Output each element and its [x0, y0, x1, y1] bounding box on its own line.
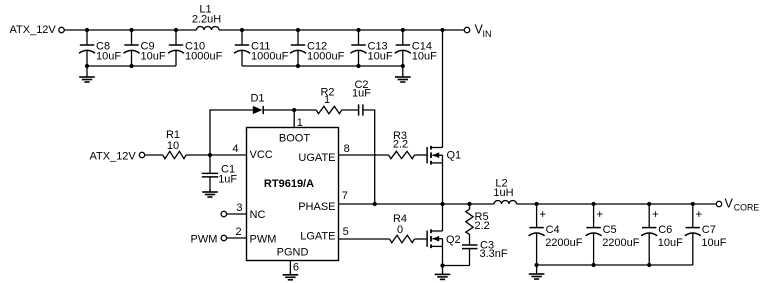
node PWM label [191, 233, 218, 245]
svg-text:PHASE: PHASE [298, 201, 335, 213]
pin 2 number [235, 226, 241, 238]
junction top rail at C8 [85, 28, 89, 32]
svg-text:1000uF: 1000uF [307, 51, 345, 63]
junction C9 bottom [129, 64, 133, 68]
capacitor C10 [168, 30, 223, 66]
svg-text:1uH: 1uH [493, 187, 513, 199]
svg-text:10uF: 10uF [96, 51, 121, 63]
capacitor C11 [234, 30, 289, 66]
capacitor C12 [290, 30, 345, 66]
svg-text:Q1: Q1 [447, 150, 462, 162]
node ATX_12V vcc input [90, 151, 137, 163]
pin 7 number [342, 190, 348, 202]
pin 4 number [232, 143, 238, 155]
svg-text:RT9619/A: RT9619/A [264, 178, 314, 190]
wire VCC node up to D1 [210, 110, 253, 155]
svg-text:+: + [696, 209, 703, 221]
op-amp U1 RT9619/A box [247, 128, 339, 261]
wire L2 to VCORE [517, 203, 717, 205]
wire ground node to C3 [443, 265, 470, 267]
junction C4 bottom [535, 263, 539, 267]
svg-text:10uF: 10uF [701, 237, 726, 249]
resistor R5 [466, 204, 490, 245]
wire LGATE pin 5 to R4 [339, 238, 390, 240]
junction VCORE rail at C6 [647, 202, 651, 206]
junction Q2 ground node [440, 263, 444, 267]
svg-text:2.2: 2.2 [393, 138, 408, 150]
wire terminal to R1 [145, 154, 163, 156]
U1 label VCC [250, 149, 273, 161]
junction top rail at C11 [240, 28, 244, 32]
svg-text:8: 8 [344, 143, 350, 155]
junction top rail at C10 [174, 28, 178, 32]
U1 label PHASE [298, 201, 335, 213]
U1 label BOOT [279, 132, 310, 144]
svg-text:NC: NC [250, 209, 266, 221]
U1 name RT9619/A [264, 178, 314, 190]
capacitor C14 [395, 30, 437, 66]
transistor Q1 [427, 146, 461, 165]
wire R4 to Q2 gate [415, 238, 427, 240]
ground below C8 [79, 66, 95, 82]
wire Q1 drain to VIN rail [442, 30, 444, 148]
ground below C4 [529, 265, 545, 279]
junction VCORE rail at C7 [691, 202, 695, 206]
diode D1 [250, 92, 264, 114]
terminal PWM pin 2 [221, 235, 226, 240]
svg-text:10uF: 10uF [368, 51, 393, 63]
resistor R4 [390, 213, 415, 243]
pin 1 stub BOOT [294, 110, 303, 129]
svg-text:ATX_12V: ATX_12V [10, 24, 57, 36]
svg-text:Q2: Q2 [446, 234, 461, 246]
terminal ATX_12V vcc [139, 152, 144, 157]
svg-text:1000uF: 1000uF [185, 51, 223, 63]
junction BOOT node [292, 108, 296, 112]
svg-text:ATX_12V: ATX_12V [90, 151, 137, 163]
wire PWM stub [227, 237, 247, 239]
svg-text:+: + [539, 209, 546, 221]
svg-text:7: 7 [342, 190, 348, 202]
ground below C1 [202, 189, 218, 197]
capacitor C1 [202, 155, 238, 192]
svg-text:10uF: 10uF [141, 51, 166, 63]
svg-text:CORE: CORE [734, 203, 760, 213]
svg-text:2200uF: 2200uF [545, 237, 583, 249]
svg-text:IN: IN [483, 29, 492, 39]
node ATX_12V input [10, 24, 57, 36]
node V_IN label [475, 23, 492, 39]
junction C13 bottom [356, 64, 360, 68]
wire UGATE pin 8 to R3 [339, 154, 389, 156]
wire ground rail C11-C14 [242, 65, 403, 67]
svg-text:4: 4 [232, 143, 238, 155]
svg-text:VCC: VCC [250, 149, 273, 161]
svg-text:2.2: 2.2 [475, 220, 490, 232]
svg-text:10uF: 10uF [658, 237, 683, 249]
svg-text:1uF: 1uF [218, 173, 237, 185]
svg-text:PGND: PGND [277, 247, 309, 259]
svg-text:C7: C7 [702, 224, 716, 236]
junction top rail at C9 [129, 28, 133, 32]
svg-text:3.3nF: 3.3nF [480, 248, 508, 260]
wire ground rail C8-C10 [87, 65, 176, 67]
junction C12 bottom [296, 64, 300, 68]
svg-text:3: 3 [236, 202, 242, 214]
svg-text:2200uF: 2200uF [602, 237, 640, 249]
svg-text:2.2uH: 2.2uH [192, 13, 221, 25]
wire NC stub [227, 213, 247, 215]
svg-text:PWM: PWM [191, 233, 218, 245]
U1 label UGATE [298, 152, 335, 164]
svg-text:5: 5 [343, 226, 349, 238]
wire Q1 source to PHASE [442, 163, 444, 204]
svg-text:6: 6 [293, 262, 299, 274]
svg-text:V: V [725, 196, 734, 210]
junction PHASE R5 [467, 202, 471, 206]
wire R2 to C2 [342, 109, 359, 111]
wire output ground rail [537, 264, 693, 266]
svg-text:1: 1 [324, 94, 330, 106]
svg-text:UGATE: UGATE [298, 152, 335, 164]
svg-text:+: + [596, 209, 603, 221]
wire top rail left [64, 29, 196, 31]
wire Q2 drain to PHASE [442, 204, 444, 231]
inductor L1 [192, 4, 221, 31]
junction PHASE Q1-Q2 [440, 202, 444, 206]
pin 8 number [344, 143, 350, 155]
ground below pin 6 [283, 272, 299, 280]
U1 label NC [250, 209, 266, 221]
junction top rail at C14 [401, 28, 405, 32]
junction C6 bottom [647, 263, 651, 267]
junction C5 bottom [592, 263, 596, 267]
resistor R1 [163, 129, 186, 159]
ground below C14 [395, 66, 411, 82]
svg-text:10: 10 [167, 140, 179, 152]
svg-text:1uF: 1uF [352, 87, 371, 99]
svg-text:C5: C5 [603, 224, 617, 236]
wire PHASE pin 7 [339, 203, 495, 205]
svg-text:C4: C4 [546, 224, 560, 236]
capacitor C2 [352, 79, 371, 116]
capacitor C5 [586, 204, 640, 265]
capacitor C4 [529, 204, 583, 265]
junction top rail at C13 [356, 28, 360, 32]
terminal V_CORE [716, 201, 721, 206]
pin 3 number [236, 202, 242, 214]
inductor L2 [493, 177, 516, 204]
pin 5 number [343, 226, 349, 238]
junction C14 bottom [401, 64, 405, 68]
pin 6 stub PGND [289, 261, 291, 275]
wire C2 to PHASE node [363, 110, 375, 204]
capacitor C6 [641, 204, 683, 265]
U1 label PGND [277, 247, 309, 259]
terminal ATX_12V [59, 27, 64, 32]
junction VCORE rail at C4 [535, 202, 539, 206]
svg-text:10uF: 10uF [412, 51, 437, 63]
junction VIN rail Q1 [440, 28, 444, 32]
wire R3 to Q1 gate [415, 154, 427, 156]
junction C8 bottom [85, 64, 89, 68]
terminal V_IN [464, 27, 469, 32]
junction VCC node [208, 153, 212, 157]
U1 label LGATE [300, 230, 335, 242]
capacitor C3 [462, 240, 508, 266]
svg-text:0: 0 [397, 224, 403, 236]
capacitor C9 [124, 30, 166, 66]
wire Q2 source to ground [442, 246, 444, 265]
U1 label PWM [250, 233, 277, 245]
junction VCORE rail at C5 [592, 202, 596, 206]
capacitor C8 [79, 30, 121, 66]
ground below Q2 [435, 266, 451, 280]
wire top rail right [219, 29, 464, 31]
svg-text:BOOT: BOOT [279, 132, 310, 144]
transistor Q2 [427, 229, 461, 248]
resistor R3 [389, 130, 415, 159]
capacitor C7 [685, 204, 727, 265]
svg-text:1000uF: 1000uF [251, 51, 289, 63]
junction PHASE C2 [373, 202, 377, 206]
resistor R2 [316, 87, 342, 114]
node V_CORE label [725, 196, 760, 212]
junction top rail at C12 [296, 28, 300, 32]
wire R1 to VCC pin 4 [186, 154, 246, 156]
wire D1 to R2 [263, 109, 316, 111]
svg-text:LGATE: LGATE [300, 230, 335, 242]
svg-text:2: 2 [235, 226, 241, 238]
terminal NC pin 3 [221, 211, 226, 216]
pin 6 number [293, 262, 299, 274]
svg-text:C6: C6 [658, 224, 672, 236]
svg-text:PWM: PWM [250, 233, 277, 245]
capacitor C13 [351, 30, 393, 66]
svg-text:+: + [652, 209, 659, 221]
svg-text:D1: D1 [250, 92, 264, 104]
